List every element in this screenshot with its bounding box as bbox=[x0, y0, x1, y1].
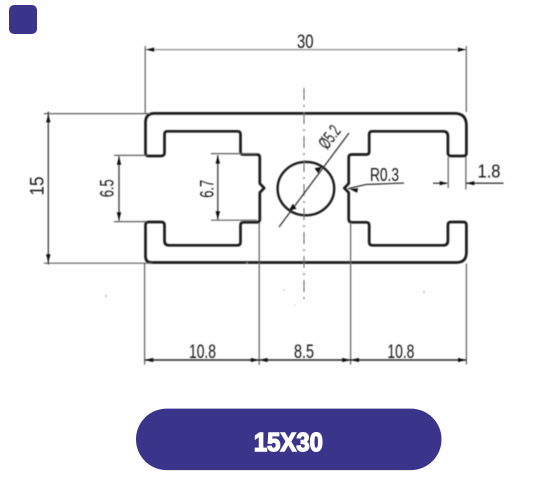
svg-text:15X30: 15X30 bbox=[254, 427, 323, 457]
dim 6.5 line bbox=[118, 156, 120, 220]
dim 6.7 line bbox=[217, 155, 219, 219]
dim 15 extension lines bbox=[44, 113, 150, 115]
center hole circle bbox=[278, 162, 335, 215]
corner badge (navy square, top-left) bbox=[9, 5, 37, 34]
dim 30 line bbox=[146, 49, 466, 51]
profile outline (15x30 extrusion cross-section) bbox=[146, 113, 467, 262]
svg-text:10.8: 10.8 bbox=[387, 342, 414, 363]
svg-text:15: 15 bbox=[28, 177, 49, 196]
bottom pill button 15X30 bbox=[136, 409, 442, 471]
svg-text:Ø5.2: Ø5.2 bbox=[314, 121, 344, 152]
svg-text:8.5: 8.5 bbox=[294, 342, 314, 363]
svg-text:R0.3: R0.3 bbox=[370, 165, 399, 185]
bottom arrows bbox=[145, 358, 153, 362]
dia 5.2 leader line bbox=[279, 133, 349, 227]
dim 15 line bbox=[47, 112, 49, 265]
svg-text:30: 30 bbox=[297, 31, 314, 53]
R0.3 leader + label bbox=[348, 183, 404, 189]
svg-text:6.5: 6.5 bbox=[98, 179, 119, 197]
scan speckles bbox=[105, 295, 107, 297]
center dash-dot line bbox=[303, 88, 305, 303]
svg-text:10.8: 10.8 bbox=[189, 342, 216, 363]
dim 6.7 extension lines bbox=[211, 153, 257, 155]
svg-text:1.8: 1.8 bbox=[478, 162, 501, 182]
svg-text:6.7: 6.7 bbox=[198, 180, 219, 198]
dim 30 extension lines bbox=[144, 46, 146, 113]
bottom dim line bbox=[145, 359, 467, 361]
dim 6.5 extension lines bbox=[114, 154, 147, 156]
dim 1.8 extension lines bbox=[465, 157, 467, 190]
bottom extension lines bbox=[144, 264, 146, 365]
dim 1.8 lines + arrows bbox=[433, 182, 447, 184]
